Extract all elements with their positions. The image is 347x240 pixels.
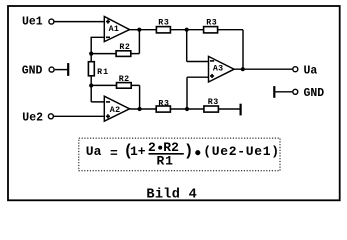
- op-amp A3: [209, 56, 235, 82]
- resistor R2 (lower feedback): [117, 83, 132, 89]
- pin - of A3: [210, 60, 214, 62]
- terminal Ue2: [48, 114, 53, 119]
- pin + of A1: [106, 20, 110, 24]
- pin - of A2: [106, 101, 110, 103]
- svg-text:Bild 4: Bild 4: [146, 187, 197, 202]
- wire R1 stubs: [90, 54, 92, 86]
- node A3 output junction: [241, 67, 245, 71]
- wire A3 inverting input from top junction: [187, 30, 209, 62]
- node junction top of R1: [89, 52, 93, 56]
- wire A3 output to Ua: [234, 68, 292, 70]
- terminal Ua: [293, 67, 298, 72]
- svg-text:Ue1: Ue1: [22, 15, 43, 28]
- wire Ue2 to A2 + input: [54, 115, 104, 117]
- svg-text:(Ue2-Ue1): (Ue2-Ue1): [203, 144, 280, 159]
- wire GND right: [275, 91, 292, 93]
- svg-text:A3: A3: [213, 65, 224, 74]
- wire R3 to feedback corner: [218, 30, 243, 69]
- wire A2 inverting input: [91, 86, 104, 102]
- svg-text:Ua: Ua: [304, 65, 318, 78]
- svg-text:A2: A2: [110, 106, 121, 115]
- wire between top R3s: [170, 29, 203, 31]
- svg-text:R2: R2: [163, 140, 179, 155]
- svg-text:1+: 1+: [130, 144, 146, 159]
- svg-text:R3: R3: [158, 19, 169, 28]
- pin + of A2: [106, 114, 110, 118]
- terminal GND right: [293, 89, 298, 94]
- svg-text:R2: R2: [119, 75, 130, 84]
- node A2 output junction: [138, 107, 142, 111]
- svg-text:GND: GND: [304, 87, 325, 100]
- svg-text:Ue2: Ue2: [22, 111, 43, 124]
- pin + of A3: [210, 74, 214, 78]
- wire A2 output row: [130, 108, 157, 110]
- svg-text:R1: R1: [157, 154, 174, 169]
- svg-text:2: 2: [148, 140, 156, 155]
- resistor R3 (bottom left): [156, 106, 170, 112]
- svg-text:R3: R3: [206, 19, 217, 28]
- node A1 output junction: [137, 28, 141, 32]
- resistor R3 (bottom right): [204, 106, 219, 112]
- wire GND left: [55, 69, 68, 71]
- svg-text:R2: R2: [119, 43, 130, 52]
- svg-text:): ): [184, 142, 193, 160]
- svg-text:R3: R3: [158, 99, 169, 108]
- svg-text:GND: GND: [22, 64, 43, 77]
- pin - of A1: [106, 36, 110, 38]
- formula fraction bar: [149, 153, 184, 155]
- terminal Ue1: [49, 19, 54, 24]
- svg-text:Ua: Ua: [86, 144, 102, 159]
- op-amp A1: [104, 17, 129, 42]
- wire junction to R2 bottom row and down to A2 output: [91, 85, 139, 109]
- svg-text:R1: R1: [97, 68, 109, 77]
- node bottom middle junction: [185, 107, 189, 111]
- node top middle junction: [185, 28, 189, 32]
- resistor R3 (top right): [204, 27, 218, 33]
- terminal GND left: [49, 67, 54, 72]
- border frame: [8, 6, 340, 200]
- ground bar right: [273, 86, 275, 98]
- resistor R2 (upper feedback): [116, 51, 131, 57]
- op-amp A2: [104, 96, 129, 121]
- resistor R1: [88, 62, 94, 76]
- node junction bottom of R1: [89, 83, 93, 87]
- ground bar bottom right: [240, 104, 242, 116]
- svg-text:A1: A1: [109, 25, 120, 34]
- formula box: [79, 138, 280, 171]
- wire between bottom R3s: [170, 108, 204, 110]
- resistor R3 (top left): [156, 27, 170, 33]
- wire R3 to ground bar: [218, 108, 239, 110]
- wire Ue1 to A1 + input: [55, 21, 105, 23]
- wire A1 output row: [130, 29, 157, 31]
- svg-text:=: =: [110, 146, 118, 161]
- ground bar left: [67, 63, 69, 76]
- wire junction to R2 top row and up to A1 output: [91, 30, 139, 54]
- svg-text:R3: R3: [208, 98, 219, 107]
- wire A3 non-inverting input from bottom junction: [187, 77, 209, 109]
- wire A1 inverting input: [91, 37, 104, 53]
- formula times dot: [195, 150, 200, 155]
